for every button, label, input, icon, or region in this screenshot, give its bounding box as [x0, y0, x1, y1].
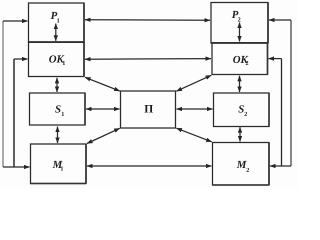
wire S1 to M1 vertical: [57, 127, 59, 143]
block M1 bottom edge overdraw: [31, 183, 87, 185]
wire P2 internal vertical: [239, 23, 241, 42]
block OK1 right edge overdraw: [83, 42, 85, 77]
block P2 right edge overdraw: [267, 3, 269, 44]
wire bus B to OK1: [14, 58, 28, 60]
wire left bus B: [13, 59, 15, 167]
wire right bus B2: [281, 59, 283, 166]
svg-text:2: 2: [238, 16, 241, 23]
wire P to S2: [177, 108, 213, 110]
block OK2: [212, 43, 268, 75]
block S1 right edge overdraw: [84, 93, 86, 125]
label P2: [232, 9, 241, 24]
svg-text:1: 1: [57, 17, 60, 24]
block P1 right edge overdraw: [83, 3, 85, 42]
wire S2 to M2 vertical: [239, 127, 241, 141]
svg-text:2: 2: [246, 167, 249, 174]
block OK1: [29, 42, 85, 77]
wire S1 to P: [86, 108, 120, 110]
svg-text:П: П: [144, 104, 153, 116]
block P2: [211, 3, 268, 44]
wire bus to M2: [270, 165, 291, 167]
wire P1-OK1 boundary overdraw: [29, 41, 85, 43]
wire OK1 to S1 vertical: [56, 78, 58, 92]
wire right bus A2: [290, 20, 292, 166]
block M1: [31, 144, 87, 184]
svg-text:2: 2: [244, 111, 247, 118]
svg-text:1: 1: [61, 111, 64, 118]
label P center: [144, 104, 153, 116]
block P (center): [121, 91, 176, 128]
wire bus A to P1: [3, 20, 28, 22]
label S2: [238, 104, 247, 118]
wire M1 to M2: [87, 165, 212, 167]
block M2: [213, 143, 270, 186]
svg-text:S: S: [55, 104, 61, 116]
label S1: [55, 104, 64, 118]
label P1: [51, 10, 60, 25]
block S2 right edge overdraw: [268, 93, 270, 127]
wire OK1 to P diagonal: [85, 77, 120, 91]
wire bus A2 to P2: [269, 19, 291, 21]
wire M1 to P diagonal: [87, 128, 120, 143]
block M2 bottom edge overdraw: [213, 184, 270, 186]
label M2: [236, 159, 249, 174]
block S2: [214, 93, 270, 127]
wire left bus A: [2, 21, 4, 167]
label OK2: [233, 54, 249, 67]
block M1 right edge overdraw: [85, 144, 87, 184]
wire P1 to P2: [85, 19, 210, 22]
svg-text:1: 1: [60, 166, 63, 173]
wire bus to M1: [3, 166, 30, 168]
svg-text:1: 1: [62, 60, 65, 67]
label OK1: [49, 53, 66, 67]
wire P to OK2 diagonal: [176, 75, 211, 91]
svg-text:2: 2: [246, 60, 249, 67]
svg-text:M: M: [236, 159, 247, 171]
label M1: [52, 159, 64, 173]
block M2 right edge overdraw: [268, 143, 270, 186]
block S1: [30, 93, 86, 125]
wire P2-OK2 boundary overdraw: [211, 42, 268, 44]
wire bus B2 to OK2: [269, 58, 282, 60]
wire OK1 to OK2: [85, 58, 211, 61]
wire OK2 to S2 vertical: [239, 76, 241, 92]
block OK2 right edge overdraw: [267, 43, 269, 75]
wire P to M2 diagonal: [176, 128, 211, 142]
block P1: [29, 3, 85, 42]
wire P1 internal vertical: [55, 24, 57, 41]
